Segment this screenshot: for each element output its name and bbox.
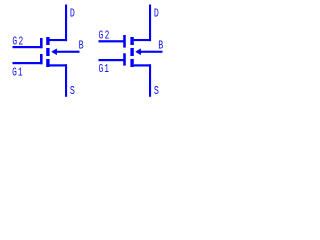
svg-text:1: 1 [104,62,109,76]
background [0,0,174,102]
svg-text:S: S [70,84,75,98]
wire source vertical [149,64,151,97]
wire G1 lead [99,59,126,61]
gate bar G1 [123,53,126,65]
bulk arrow (points into channel) [51,48,57,55]
channel segment top [130,37,133,45]
channel segment bottom [130,59,133,67]
wire G2 lead [13,46,43,48]
svg-text:B: B [158,38,163,52]
wire drain vertical [149,5,151,42]
wire G2 lead [99,40,126,42]
wire source vertical [65,64,67,97]
wire B lead [57,51,80,53]
svg-text:D: D [154,7,159,21]
wire source stub [134,64,151,66]
transistor Q2 (dual-gate N-channel MOSFET, right, centered-gate style) [99,5,164,99]
wire source stub [50,64,68,66]
transistor Q1 (dual-gate N-channel MOSFET, left) [12,5,84,99]
svg-text:G: G [12,66,17,80]
wire drain stub [50,39,68,41]
gate bar G2 [123,35,126,48]
bulk arrow (points into channel) [135,48,141,55]
svg-text:G: G [99,62,104,76]
svg-text:B: B [79,38,84,52]
svg-text:S: S [154,84,159,98]
wire B lead [141,51,163,53]
channel segment bottom [46,59,49,67]
gate bar G1 [40,54,43,64]
wire G1 lead [13,62,43,64]
wire drain vertical [65,5,67,42]
svg-text:D: D [70,7,75,21]
gate bar G2 [40,38,43,48]
channel segment top [46,37,49,45]
channel segment middle [46,48,49,56]
svg-text:1: 1 [18,66,23,80]
wire drain stub [134,39,151,41]
channel segment middle [130,48,133,56]
